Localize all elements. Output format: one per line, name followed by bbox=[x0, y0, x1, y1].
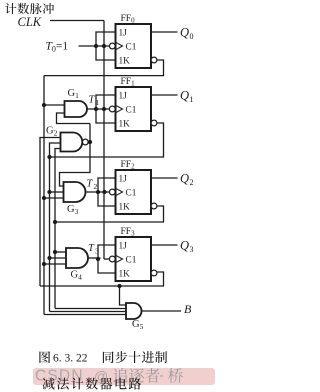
svg-text:1J: 1J bbox=[119, 92, 128, 102]
junction CP at FF1 clock bbox=[102, 107, 106, 111]
AND gate G4 bbox=[66, 248, 88, 268]
wire G1 top input from Qbar0 bus bbox=[44, 104, 65, 106]
svg-text:3: 3 bbox=[190, 245, 194, 254]
svg-text:Q: Q bbox=[180, 89, 189, 103]
junction T1 at FF1 bracket bbox=[94, 107, 98, 111]
svg-text:Q: Q bbox=[180, 172, 189, 186]
AND gate G1 bbox=[65, 101, 88, 117]
AND gate G3 bbox=[64, 182, 86, 202]
wire G5 input from Qbar0 bbox=[44, 314, 126, 316]
wire T2 line from G3 to FF2 bbox=[86, 191, 110, 193]
flip-flop FF3 box bbox=[116, 237, 152, 281]
caption line 2: 减法计数器电路 bbox=[42, 378, 54, 390]
svg-text:3: 3 bbox=[95, 247, 99, 256]
junction CP at FF0 clock bbox=[102, 44, 106, 48]
FF0 clock dynamic-input triangle bbox=[116, 42, 123, 50]
wire CLK horizontal to clock bus bbox=[50, 20, 104, 22]
svg-text:Q: Q bbox=[180, 239, 189, 253]
wire Q3 output bbox=[151, 244, 178, 246]
FF1 clock dynamic-input triangle bbox=[116, 105, 123, 113]
svg-text:FF1: FF1 bbox=[121, 77, 136, 88]
wire borrow output B bbox=[142, 310, 182, 312]
wire G3 middle input from Qbar1 bus bbox=[50, 191, 64, 193]
FF1 clock inversion bubble bbox=[109, 106, 115, 112]
wire T0 input line to FF0 bbox=[79, 45, 110, 47]
junction Qbar2 to G4 bbox=[53, 250, 57, 254]
svg-text:C1: C1 bbox=[126, 189, 137, 199]
wire Qbar2 feedback: FF2 bubble right-down-left to bus bbox=[55, 206, 164, 222]
svg-text:C1: C1 bbox=[126, 256, 137, 266]
wire G4 bottom input from Qbar0 bus bbox=[44, 263, 66, 265]
svg-text:CLK: CLK bbox=[18, 15, 42, 29]
svg-text:FF0: FF0 bbox=[121, 14, 136, 25]
svg-text:1: 1 bbox=[190, 95, 194, 104]
wire FF1 J-K fork bracket bbox=[96, 95, 116, 123]
svg-text:1J: 1J bbox=[119, 175, 128, 185]
wire Q2 output bbox=[151, 177, 178, 179]
FF2 inverted output bubble bbox=[151, 203, 157, 209]
junction Qbar1 to G4 bbox=[47, 256, 51, 260]
FF3 clock inversion bubble bbox=[109, 256, 115, 262]
wire Qbar3 drop to G5 top input bbox=[120, 286, 127, 305]
wire FF3 J-K fork bracket bbox=[98, 245, 116, 273]
svg-text:FF2: FF2 bbox=[121, 160, 136, 171]
svg-text:2: 2 bbox=[94, 182, 98, 191]
flip-flop FF2 box bbox=[116, 170, 152, 214]
wire Qbar0 vertical bus x=44 bbox=[43, 76, 45, 315]
FF3 clock dynamic-input triangle bbox=[116, 255, 123, 263]
svg-text:CSDN: CSDN bbox=[35, 368, 84, 385]
svg-text:Q: Q bbox=[180, 26, 189, 40]
G2 output bubble bbox=[82, 139, 88, 145]
wire G2 output up branch to G1 loop bbox=[89, 124, 91, 143]
svg-text:1K: 1K bbox=[119, 120, 131, 130]
FF0 clock inversion bubble bbox=[109, 43, 115, 49]
wire Qbar2 vertical bus x=55 with top corner into G2 bottom input bbox=[55, 149, 61, 309]
flip-flop FF1 box bbox=[116, 87, 152, 131]
FF1 inverted output bubble bbox=[151, 120, 157, 126]
junction Qbar1 feedback joins bus bbox=[47, 155, 51, 159]
svg-text:6. 3. 22: 6. 3. 22 bbox=[53, 353, 88, 365]
svg-text:1K: 1K bbox=[119, 270, 131, 280]
wire G1 bottom input loop from G2 output bbox=[57, 113, 91, 124]
wire Qbar1 vertical bus x=49.5 with top corner into G2 middle input bbox=[50, 143, 61, 312]
junction T3 at FF3 bracket bbox=[96, 257, 100, 261]
junction G2 output node bbox=[88, 140, 92, 144]
wire T3 line from G4 to FF3 bracket bbox=[88, 257, 101, 259]
svg-text:C1: C1 bbox=[126, 43, 137, 53]
junction Qbar0 to G3 bbox=[42, 196, 46, 200]
junction T0 at FF0 JK bracket bbox=[94, 44, 98, 48]
svg-text:1K: 1K bbox=[119, 57, 131, 67]
svg-text:2: 2 bbox=[190, 178, 194, 187]
flip-flop FF0 box bbox=[116, 24, 152, 68]
wire G5 input from Qbar1 bbox=[50, 311, 127, 313]
NAND gate G2 bbox=[61, 133, 83, 152]
wire FF2 J-K fork bracket bbox=[98, 178, 116, 206]
wire G3 bottom input from Qbar0 bus bbox=[44, 197, 64, 199]
wire G5 input from Qbar2 bbox=[55, 308, 126, 310]
wire G4 top input from Qbar2 bus bbox=[55, 251, 66, 253]
wire CP clock vertical bus x=104 bbox=[103, 21, 105, 260]
wire FF0 J-K fork bracket bbox=[96, 32, 116, 60]
wire G2 output stub bbox=[88, 141, 90, 143]
junction T2 at FF2 bracket bbox=[96, 190, 100, 194]
svg-text:T0=1: T0=1 bbox=[46, 41, 69, 54]
FF2 clock dynamic-input triangle bbox=[116, 188, 123, 196]
wire G2 output down branch to G3 top input bbox=[60, 142, 91, 186]
junction Qbar0 to G1 bbox=[42, 103, 46, 107]
wire Qbar0 feedback: FF0 bubble right-down-left to bus bbox=[44, 60, 164, 76]
junction Qbar2 feedback joins bus bbox=[53, 220, 57, 224]
svg-text:1J: 1J bbox=[119, 29, 128, 39]
svg-text:1J: 1J bbox=[119, 242, 128, 252]
wire CP corner into FF3 clock bbox=[104, 258, 109, 260]
wire Qbar3 vertical bus x=40 up to G2 top input bbox=[40, 138, 61, 287]
wire Qbar1 feedback: FF1 bubble right-down-left to bus bbox=[50, 123, 164, 157]
junction CP at FF2 clock bbox=[102, 190, 106, 194]
wire G4 middle input from Qbar1 bus bbox=[50, 257, 67, 259]
caption line 1: 图 6.3.22 同步十进制 bbox=[39, 351, 50, 363]
svg-text:0: 0 bbox=[190, 32, 194, 41]
wire Q1 output bbox=[151, 94, 178, 96]
svg-text:FF3: FF3 bbox=[121, 227, 136, 238]
label 计数脉冲 (counting pulse) bbox=[5, 3, 16, 14]
svg-text:1K: 1K bbox=[119, 203, 131, 213]
FF0 inverted output bubble bbox=[151, 57, 157, 63]
wire Q0 output bbox=[151, 31, 178, 33]
junction Qbar0 to G4 bbox=[42, 262, 46, 266]
wire Qbar3 feedback: FF3 bubble right-down-left along y=286 bbox=[40, 272, 164, 286]
svg-text:-: - bbox=[160, 368, 164, 383]
svg-text:C1: C1 bbox=[126, 106, 137, 116]
junction Qbar3 branch to G5 bbox=[117, 284, 121, 288]
svg-text:1: 1 bbox=[96, 98, 100, 107]
junction Qbar1 to G3 bbox=[47, 190, 51, 194]
AND gate G5 bbox=[126, 303, 142, 319]
FF2 clock inversion bubble bbox=[109, 189, 115, 195]
svg-text:B: B bbox=[184, 302, 192, 316]
FF3 inverted output bubble bbox=[151, 270, 157, 276]
wire T1 line from G1 to FF1 bbox=[87, 108, 109, 110]
watermark highlight band bbox=[33, 368, 215, 385]
